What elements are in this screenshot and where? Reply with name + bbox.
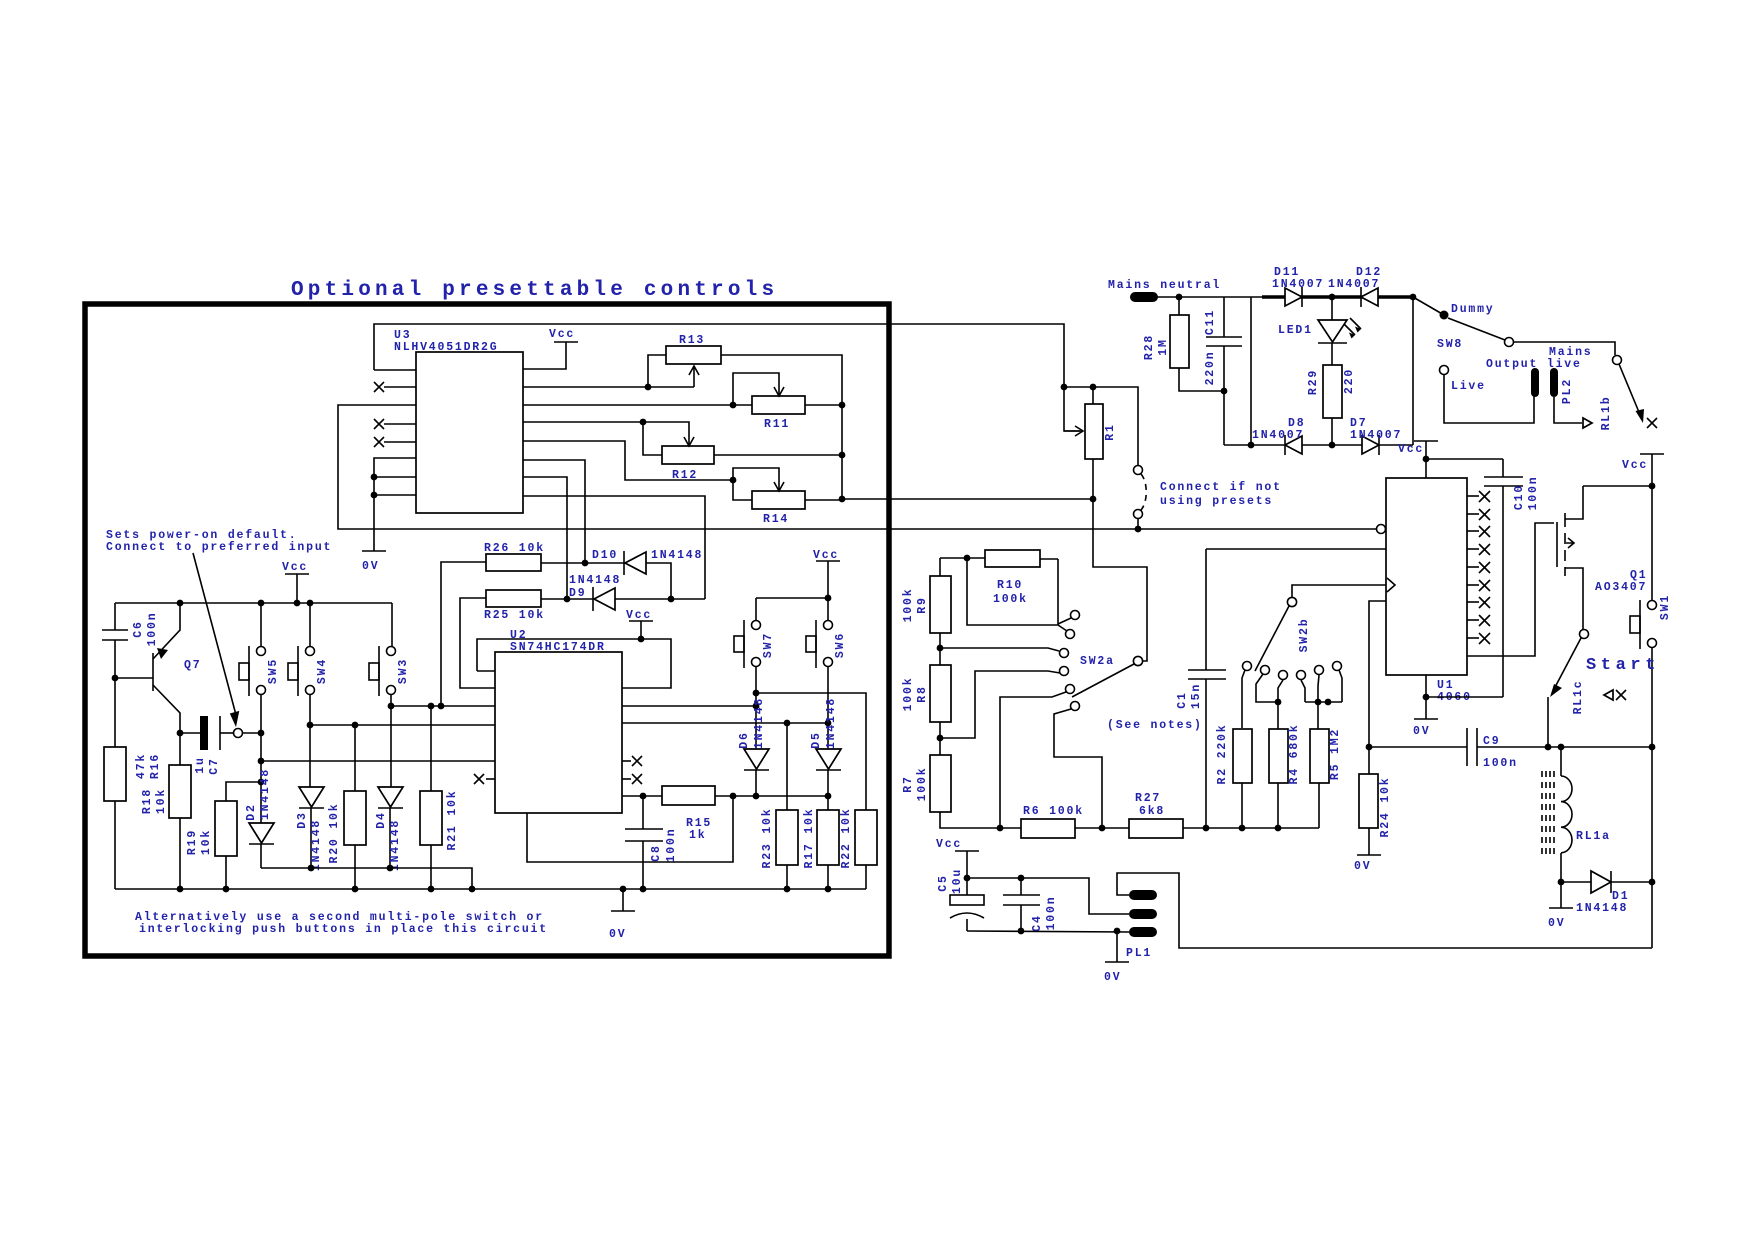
wire R15 output loop back to U2 bottom pin <box>527 796 733 862</box>
svg-text:SW3: SW3 <box>397 658 410 684</box>
resistor R15 1k <box>662 786 715 805</box>
wire Vcc to PL1 pin2 <box>967 878 1129 914</box>
wire PL2 pin2 to output arrow <box>1554 397 1582 423</box>
ground 0V in preset box <box>622 889 624 911</box>
svg-text:SW6: SW6 <box>834 632 847 658</box>
resistor R29 220 <box>1323 365 1342 418</box>
svg-text:R7: R7 <box>902 775 915 792</box>
wire ground rail y889 <box>115 888 866 890</box>
svg-text:100n: 100n <box>1527 476 1540 511</box>
resistor R19 10k <box>215 801 237 856</box>
svg-text:RL1b: RL1b <box>1600 396 1613 431</box>
svg-text:0V: 0V <box>362 560 379 573</box>
switch SW2a contact 1 <box>1071 611 1080 620</box>
dashed-box border of optional presettable controls <box>85 304 889 956</box>
svg-text:D5: D5 <box>810 731 823 748</box>
capacitor C8 100n <box>642 796 644 829</box>
wire mains neutral line <box>1157 296 1262 298</box>
wire C1 top line to U1 <box>1206 548 1386 550</box>
svg-text:D10: D10 <box>592 549 618 562</box>
svg-text:SW7: SW7 <box>762 632 775 658</box>
annotation arrow to C7 junction <box>193 553 236 715</box>
svg-text:0V: 0V <box>1104 971 1121 984</box>
wire left bridge vertical <box>1250 297 1252 445</box>
switch SW2b contact 1 <box>1243 662 1252 671</box>
svg-text:47k: 47k <box>135 753 148 779</box>
diode D7 1N4007 <box>1362 436 1379 454</box>
svg-text:R24 10k: R24 10k <box>1379 777 1392 838</box>
svg-text:C1: C1 <box>1176 691 1189 708</box>
transistor Q1 AO3407 <box>1556 522 1558 567</box>
svg-text:R28: R28 <box>1143 334 1156 360</box>
resistor R8 100k <box>930 665 951 722</box>
svg-text:R5 1M2: R5 1M2 <box>1329 728 1342 780</box>
svg-text:R13: R13 <box>679 334 705 347</box>
wire U3 pin to R11 <box>523 404 752 406</box>
svg-text:1N4148: 1N4148 <box>310 819 323 871</box>
wire U1 pin to timing junction <box>1369 601 1386 747</box>
svg-text:Vcc: Vcc <box>813 549 839 562</box>
svg-text:R19: R19 <box>186 829 199 855</box>
resistor R26 10k <box>486 554 541 571</box>
relay contact RL1b <box>1613 356 1622 365</box>
svg-text:D2: D2 <box>245 803 258 820</box>
svg-text:C8: C8 <box>650 844 663 861</box>
switch SW8 dummy/live <box>1413 297 1444 315</box>
wire U3 ground pins <box>374 458 416 551</box>
wire Vcc wrap to U2 right pin <box>622 639 671 688</box>
diode D10 1N4148 <box>623 551 625 575</box>
svg-text:Vcc: Vcc <box>282 561 308 574</box>
svg-text:Connect to preferred input: Connect to preferred input <box>106 541 332 554</box>
svg-text:Live: Live <box>1451 380 1486 393</box>
svg-text:Vcc: Vcc <box>936 838 962 851</box>
diode D4 1N4148 <box>378 787 403 807</box>
switch SW2b contact 5 <box>1315 666 1324 675</box>
svg-text:1N4148: 1N4148 <box>389 819 402 871</box>
svg-text:220: 220 <box>1343 368 1356 394</box>
svg-text:R9: R9 <box>916 596 929 613</box>
diode D12 1N4007 <box>1360 287 1362 307</box>
IC U2 SN74HC174DR <box>495 652 622 813</box>
ground 0V at U1 <box>1425 697 1427 719</box>
svg-text:SW2b: SW2b <box>1298 618 1311 653</box>
svg-text:C4: C4 <box>1031 914 1044 931</box>
svg-text:Q7: Q7 <box>184 659 201 672</box>
wire R26 right lead <box>541 562 624 564</box>
svg-text:C6: C6 <box>132 620 145 637</box>
svg-text:100k: 100k <box>993 593 1028 606</box>
svg-text:R22 10k: R22 10k <box>840 808 853 869</box>
wire R13 right lead to bus <box>721 355 842 499</box>
svg-text:1N4148: 1N4148 <box>259 768 272 820</box>
capacitor C4 100n <box>1020 878 1022 895</box>
wire R11 wiper loop <box>733 373 779 405</box>
svg-text:R8: R8 <box>916 685 929 702</box>
diode D8 1N4007 <box>1284 435 1286 455</box>
switch SW2a contact 3 <box>1060 649 1069 658</box>
capacitor C1 15n <box>1205 549 1207 670</box>
svg-text:C5: C5 <box>937 874 950 891</box>
resistor R22 10k <box>855 810 877 865</box>
wire U3 pin to R13 wiper line <box>523 386 694 388</box>
svg-text:100n: 100n <box>665 828 678 863</box>
wire R12 right lead <box>714 454 842 456</box>
capacitor C10 100n <box>1426 458 1503 460</box>
wire SW8 common to RL1b <box>1514 342 1615 355</box>
resistor R17 10k <box>817 810 839 865</box>
svg-text:D3: D3 <box>296 811 309 828</box>
svg-text:SW4: SW4 <box>316 658 329 684</box>
svg-text:Vcc: Vcc <box>1398 443 1424 456</box>
wire ground line y931 to PL1 pin3 <box>967 931 1129 932</box>
diode D11 1N4007 <box>1285 288 1302 306</box>
svg-text:R23 10k: R23 10k <box>761 808 774 869</box>
svg-text:D4: D4 <box>375 811 388 828</box>
svg-text:10u: 10u <box>951 868 964 894</box>
wire SW3/D4 line to U2 (R26 junction) <box>391 705 495 707</box>
svg-text:Mains neutral: Mains neutral <box>1108 279 1221 292</box>
svg-text:R29: R29 <box>1307 369 1320 395</box>
ground 0V at RL1a <box>1560 882 1562 908</box>
svg-text:C9: C9 <box>1483 735 1500 748</box>
svg-text:0V: 0V <box>609 928 626 941</box>
wire Q1 source to Vcc <box>1583 485 1652 487</box>
resistor R23 10k <box>776 810 798 865</box>
potentiometer R11 <box>752 396 805 414</box>
switch SW6 <box>824 621 833 630</box>
potentiometer R14 <box>752 491 805 509</box>
resistor R7 100k <box>930 755 951 812</box>
wire R1 wiper <box>1064 387 1080 431</box>
switch SW1 <box>1651 486 1653 601</box>
transistor Q7 <box>115 677 153 679</box>
svg-text:100k: 100k <box>916 767 929 802</box>
wire U3 pin down to D9/D10 output line <box>523 496 705 599</box>
wire SW5 line to U2 <box>261 760 495 762</box>
resistor R16 47k <box>104 747 126 801</box>
switch SW2b contact 3 <box>1279 671 1288 680</box>
wire U2 pin to SW7/D6 column <box>622 705 756 707</box>
svg-text:LED1: LED1 <box>1278 324 1313 337</box>
switch SW2a common <box>1133 656 1142 665</box>
svg-text:(See notes): (See notes) <box>1107 719 1203 732</box>
svg-text:1N4148: 1N4148 <box>1576 902 1628 915</box>
wire bottom bridge line <box>1224 444 1284 446</box>
wire R14 left lead <box>733 480 752 500</box>
svg-text:1N4148: 1N4148 <box>651 549 703 562</box>
svg-text:1N4007: 1N4007 <box>1328 278 1380 291</box>
wire U3 pin stepping to R14 <box>523 441 733 480</box>
wire PL1 pin1 loop to relay line <box>1117 873 1652 948</box>
switch SW2b common <box>1287 597 1296 606</box>
switch SW2a contact 5 <box>1066 685 1075 694</box>
IC U1 4060 <box>1386 478 1467 675</box>
wire U2 pin to SW6/D5 column <box>622 722 828 724</box>
node connect-if-not circles <box>1134 466 1143 475</box>
diode D3 1N4148 <box>299 787 324 807</box>
svg-text:SN74HC174DR: SN74HC174DR <box>510 641 606 654</box>
IC U3 NLHV4051DR2G <box>416 352 523 513</box>
svg-text:1u: 1u <box>194 756 207 773</box>
svg-text:R4 680k: R4 680k <box>1288 724 1301 785</box>
capacitor C11 220n <box>1223 297 1225 337</box>
svg-text:R14: R14 <box>763 513 789 526</box>
switch SW2b contact 2 <box>1261 666 1270 675</box>
ground 0V at PL1 <box>1116 931 1118 962</box>
wire R26 left lead down to y706 line <box>441 562 486 706</box>
diode D5 1N4148 <box>816 749 841 769</box>
resistor R27 6k8 <box>1129 819 1183 838</box>
wire R13 left lead <box>648 355 666 387</box>
switch SW2a contact 2 <box>1066 630 1075 639</box>
wire SW7 junction to R22 <box>756 693 866 810</box>
wire right bridge vertical <box>1412 297 1414 445</box>
svg-text:R2 220k: R2 220k <box>1216 724 1229 785</box>
resistor R28 1M <box>1170 315 1189 368</box>
svg-text:Start: Start <box>1586 656 1660 675</box>
svg-text:15n: 15n <box>1190 683 1203 709</box>
wire live to PL2 pin1 <box>1444 375 1534 423</box>
pin U2 left no-connect x <box>486 778 495 780</box>
svg-text:1N4148: 1N4148 <box>753 697 766 749</box>
svg-text:100k: 100k <box>902 677 915 712</box>
svg-text:R1: R1 <box>1104 423 1117 440</box>
svg-text:1N4007: 1N4007 <box>1350 429 1402 442</box>
diode D9 1N4148 <box>592 587 594 611</box>
svg-text:using presets: using presets <box>1160 495 1273 508</box>
switch SW2b contact 6 <box>1333 662 1342 671</box>
wire R14 wiper loop <box>733 468 779 489</box>
potentiometer R12 <box>662 446 714 464</box>
svg-text:1N4148: 1N4148 <box>825 697 838 749</box>
svg-text:220n: 220n <box>1204 351 1217 386</box>
svg-text:PL2: PL2 <box>1561 378 1574 404</box>
ground 0V at R24 <box>1357 854 1381 856</box>
wire U3 left pin loop to output line y530 <box>338 405 1376 529</box>
svg-text:0V: 0V <box>1413 725 1430 738</box>
svg-text:R25 10k: R25 10k <box>484 609 545 622</box>
svg-text:SW8: SW8 <box>1437 338 1463 351</box>
svg-text:1k: 1k <box>689 829 706 842</box>
pin U1 right no-connect x pins <box>1467 495 1479 497</box>
svg-text:RL1c: RL1c <box>1572 680 1585 715</box>
connector PL1 <box>1129 890 1157 900</box>
wire SW4/R20 line to U2 <box>310 724 495 726</box>
wire U3 pin down to R25/D9 junction <box>523 477 567 599</box>
resistor R2 220k <box>1233 729 1252 783</box>
wire R11 right lead <box>805 404 842 406</box>
switch SW3 <box>387 647 396 656</box>
wire U3 pin down to R26/D10 junction <box>523 460 585 563</box>
diode D6 1N4148 <box>744 749 769 769</box>
svg-text:D6: D6 <box>738 731 751 748</box>
resistor R9 100k <box>930 576 951 633</box>
svg-text:100n: 100n <box>146 612 159 647</box>
resistor R21 10k <box>420 791 442 845</box>
resistor R5 1M2 <box>1310 729 1329 783</box>
capacitor C5 10u <box>966 878 968 895</box>
svg-text:Vcc: Vcc <box>549 328 575 341</box>
svg-text:0V: 0V <box>1354 860 1371 873</box>
resistor R4 680k <box>1269 729 1288 783</box>
svg-text:C10: C10 <box>1513 484 1526 510</box>
switch SW2b contact 4 <box>1297 671 1306 680</box>
connector PL2 <box>1531 368 1539 397</box>
switch SW2a contact 6 <box>1071 702 1080 711</box>
ground 0V under U3 <box>362 550 386 552</box>
potentiometer R13 <box>666 346 721 364</box>
wire R14 right lead exiting box to R1 bottom <box>805 499 1093 500</box>
svg-text:C7: C7 <box>208 757 221 774</box>
svg-text:R17 10k: R17 10k <box>803 808 816 869</box>
svg-text:Dummy: Dummy <box>1451 303 1495 316</box>
svg-text:6k8: 6k8 <box>1139 805 1165 818</box>
wire R25 right lead <box>541 598 593 600</box>
wire U2 label box top line <box>477 639 641 671</box>
svg-text:Vcc: Vcc <box>1622 459 1648 472</box>
wire SW2b right group bus <box>1305 701 1342 703</box>
svg-text:SW5: SW5 <box>267 658 280 684</box>
resistor R10 100k <box>985 550 1040 567</box>
svg-text:0V: 0V <box>1548 917 1565 930</box>
svg-text:1M: 1M <box>1157 338 1170 355</box>
capacitor C7 1u <box>180 732 201 734</box>
pin U3 left no-connect x pins <box>384 386 416 388</box>
wire U3 label box lines <box>374 369 416 371</box>
svg-text:R20 10k: R20 10k <box>328 803 341 864</box>
svg-text:SW2a: SW2a <box>1080 655 1115 668</box>
svg-text:interlocking push buttons in p: interlocking push buttons in place this … <box>139 923 548 936</box>
wire diode cathode bus y868 <box>261 868 472 889</box>
resistor R20 10k <box>344 791 366 845</box>
resistor R6 100k <box>1021 819 1075 838</box>
wire U3 pin to R12 wiper <box>523 422 689 444</box>
svg-text:1N4007: 1N4007 <box>1272 278 1324 291</box>
svg-text:R26 10k: R26 10k <box>484 542 545 555</box>
svg-text:Output live: Output live <box>1486 358 1582 371</box>
svg-text:100k: 100k <box>902 588 915 623</box>
diode D1 1N4148 <box>1561 881 1591 883</box>
diode D2 1N4148 <box>249 823 274 843</box>
svg-text:RL1a: RL1a <box>1576 830 1611 843</box>
switch SW5 <box>257 647 266 656</box>
switch SW4 <box>306 647 315 656</box>
svg-text:AO3407: AO3407 <box>1595 581 1647 594</box>
capacitor C9 100n <box>1369 746 1467 748</box>
svg-text:R6 100k: R6 100k <box>1023 805 1084 818</box>
svg-text:100n: 100n <box>1483 757 1518 770</box>
svg-text:R16: R16 <box>149 753 162 779</box>
wire Vcc rail y603 <box>115 602 392 604</box>
wire R1 bottom to SW2a common <box>1093 459 1147 661</box>
svg-text:100n: 100n <box>1045 896 1058 931</box>
svg-text:1N4148: 1N4148 <box>569 574 621 587</box>
svg-text:PL1: PL1 <box>1126 947 1152 960</box>
wire R13 wiper arrow <box>693 366 695 387</box>
resistor R25 10k <box>486 590 541 607</box>
switch SW2a contact 4 <box>1060 667 1069 676</box>
LED LED1 <box>1331 297 1333 320</box>
wire U3 pin1 top loop exiting box to R1 area <box>374 324 1064 387</box>
svg-text:SW1: SW1 <box>1659 594 1672 620</box>
resistor R24 10k <box>1359 774 1378 828</box>
node preset default input circle <box>234 729 243 738</box>
wire U1 output pin to Q1 gate <box>1467 523 1554 656</box>
svg-text:R11: R11 <box>764 418 790 431</box>
capacitor C6 100n <box>114 603 116 630</box>
wire R25 left lead loop to U2 <box>460 598 495 688</box>
pin U1 reset circle on y530 line <box>1377 525 1386 534</box>
wire U2 output to R15 <box>622 795 662 797</box>
svg-text:D9: D9 <box>569 587 586 600</box>
pin U1 clock symbol <box>1387 578 1395 592</box>
svg-text:R10: R10 <box>997 579 1023 592</box>
switch SW7 <box>752 621 761 630</box>
wire U1 ground pin to C10 <box>1426 675 1503 697</box>
resistor R18 10k <box>169 765 191 818</box>
relay contact RL1c <box>1580 630 1589 639</box>
wire R1 top line from preset box <box>1064 387 1138 465</box>
svg-text:Connect if not: Connect if not <box>1160 481 1282 494</box>
svg-text:1N4007: 1N4007 <box>1252 429 1304 442</box>
relay coil RL1a <box>1560 747 1562 776</box>
svg-text:10k: 10k <box>155 788 168 814</box>
svg-text:C11: C11 <box>1204 309 1217 335</box>
svg-text:Optional presettable controls: Optional presettable controls <box>291 279 778 302</box>
svg-text:NLHV4051DR2G: NLHV4051DR2G <box>394 341 498 354</box>
svg-text:R18: R18 <box>141 788 154 814</box>
wire SW1 column to relay line <box>1651 747 1653 948</box>
svg-text:10k: 10k <box>200 829 213 855</box>
wire R12 left lead <box>643 422 662 455</box>
pin U2 right no-connect x pins <box>622 760 631 762</box>
potentiometer R1 <box>1085 404 1103 459</box>
wire thick mains segment through D11 D12 <box>1262 295 1413 299</box>
node Live <box>1440 366 1449 375</box>
svg-text:R21 10k: R21 10k <box>446 790 459 851</box>
svg-text:Vcc: Vcc <box>626 609 652 622</box>
svg-text:R27: R27 <box>1135 792 1161 805</box>
